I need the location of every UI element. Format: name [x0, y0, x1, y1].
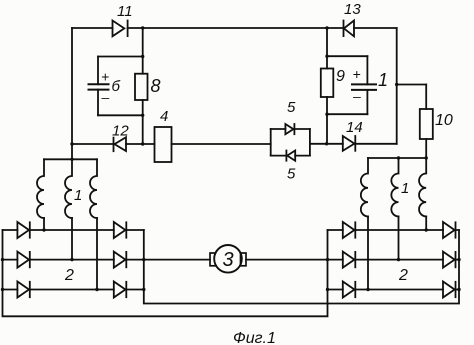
node junction diode12 / vertical x=142.7 — [141, 142, 144, 145]
wire motor right lead — [246, 259, 328, 261]
node left bus row2 — [1, 258, 4, 261]
wire capacitor C7 bottom lead — [366, 90, 368, 114]
node loop7 bottom rail junction — [325, 113, 328, 116]
wire right coil A lead to row3 — [367, 216, 369, 289]
svg-text:+: + — [101, 69, 109, 85]
node right bridge left bus row3 — [326, 288, 329, 291]
wire diode 14 to right vertical — [355, 143, 396, 145]
svg-text:1: 1 — [401, 180, 409, 197]
diode bridge left row1 left — [17, 222, 29, 238]
wire loop7 bottom rail — [327, 113, 367, 115]
resistor R10 — [420, 109, 433, 139]
node left bridge row1 / coil A — [42, 228, 45, 231]
wire right coil C lead to row1 — [425, 216, 427, 230]
wire capacitor C6 top lead — [97, 57, 99, 85]
diode bridge right row2 left — [343, 252, 356, 268]
inductor left A (x=44) — [37, 159, 44, 218]
diode bridge left row3 left — [17, 282, 29, 298]
inductor left C (x=97) — [90, 159, 97, 218]
wire R10 branch horizontal — [397, 84, 427, 86]
resistor R8 — [135, 74, 148, 100]
left bridge row 2 — [3, 259, 144, 261]
motor M3 body — [214, 245, 242, 273]
diode 12 — [114, 137, 127, 151]
diode 11 — [113, 21, 128, 37]
wire R10 bottom lead — [425, 139, 427, 158]
wire pair top rail — [271, 128, 310, 130]
wire left bridge right bus down and across to right bridge right bus — [144, 230, 459, 304]
svg-text:12: 12 — [112, 123, 129, 140]
motor M3 right brush — [241, 253, 247, 266]
node junction top bus / R8 branch — [141, 26, 144, 29]
diode pair 5 left side — [270, 129, 272, 156]
motor M3 left brush — [210, 253, 216, 266]
inductor right B (x=398.5) — [391, 158, 398, 216]
left bridge row 1 — [3, 229, 144, 231]
diode 13 — [344, 21, 355, 37]
resistor R9 — [321, 69, 334, 98]
wire top bus middle segment — [128, 27, 344, 29]
svg-text:Фиг.1: Фиг.1 — [233, 330, 276, 345]
wire capacitor C7 top lead — [366, 56, 368, 84]
node right bridge right bus row2 — [457, 258, 460, 261]
node loop7 top rail junction — [325, 55, 328, 58]
node loop6 bottom rail junction — [141, 114, 144, 117]
svg-text:–: – — [352, 88, 361, 104]
node left bridge right bus row3 — [142, 288, 145, 291]
wire capacitor C6 bottom lead — [97, 90, 99, 116]
svg-text:3: 3 — [223, 249, 234, 271]
wire right vertical x=396.7 from top bus to diode 14 row — [396, 28, 398, 144]
svg-text:5: 5 — [287, 99, 296, 116]
node right rail / coil B junction — [397, 156, 400, 159]
node junction control row / vertical x=327 — [325, 142, 328, 145]
diode bridge right row1 right — [443, 222, 456, 238]
svg-text:2: 2 — [398, 267, 408, 284]
node left bridge row2 / coil B — [70, 258, 73, 261]
wire vertical x=142.7 bottom segment — [142, 100, 144, 144]
wire left vertical from top bus down to coil rail — [71, 28, 73, 159]
svg-text:б: б — [112, 78, 121, 95]
diode bridge right row2 right — [443, 252, 456, 268]
wire right coil B lead to row2 — [398, 216, 400, 259]
wire vertical x=142.7 top segment — [142, 28, 144, 74]
wire control row from left vertical to diode 12 — [72, 143, 114, 145]
diode 5 lower (pointing left) — [286, 151, 295, 161]
diode bridge right row3 left — [343, 282, 356, 298]
wire loop6 bottom rail — [98, 114, 143, 116]
diode pair 5 right side — [309, 129, 311, 156]
right bridge row 2 — [328, 259, 460, 261]
inductor right A (x=368) — [361, 158, 368, 216]
svg-text:8: 8 — [151, 76, 161, 96]
wire diode pair to diode 14 — [310, 143, 343, 145]
svg-text:–: – — [101, 89, 110, 105]
node right bridge right bus row3 — [457, 288, 460, 291]
svg-text:9: 9 — [336, 68, 345, 85]
node junction R10 branch — [395, 83, 398, 86]
node left bridge right bus row2 — [142, 258, 145, 261]
diode bridge left row2 right — [114, 252, 127, 268]
wire loop7 top rail — [327, 55, 367, 57]
wire left coil A lead to row1 — [43, 218, 45, 230]
node left bus row3 — [1, 288, 4, 291]
node loop6 top rail junction — [141, 55, 144, 58]
svg-text:2: 2 — [64, 267, 74, 284]
wire left coil rail — [44, 158, 97, 160]
wire motor left lead — [144, 259, 210, 261]
node right rail / R10 lead junction — [425, 156, 428, 159]
wire vertical x=327 top segment — [326, 28, 328, 69]
right bridge row 1 — [328, 229, 460, 231]
wire left coil B lead to row2 — [71, 218, 73, 260]
node right bridge row1 / coil C — [425, 228, 428, 231]
diode bridge right row3 right — [443, 282, 456, 298]
wire loop6 top rail — [98, 56, 143, 58]
box 4 (regulator) — [155, 127, 172, 162]
capacitor C7 — [352, 84, 376, 90]
svg-text:11: 11 — [117, 3, 133, 20]
node junction top bus / R9 branch — [325, 26, 328, 29]
wire top bus left segment — [72, 27, 113, 29]
diode 14 — [343, 136, 356, 151]
svg-text:+: + — [353, 66, 361, 82]
diode bridge right row1 left — [343, 222, 356, 238]
node right bridge row3 / coil A — [366, 288, 369, 291]
wire top bus right segment — [354, 27, 397, 29]
wire pair bottom rail — [271, 155, 310, 157]
capacitor C6 — [89, 84, 109, 89]
wire diode 12 to box 4 — [126, 143, 155, 145]
wire vertical x=327 bottom segment — [326, 97, 328, 144]
node right bridge row2 / coil B — [397, 258, 400, 261]
svg-text:1: 1 — [378, 70, 388, 90]
right bridge row 3 — [328, 289, 460, 291]
svg-text:5: 5 — [287, 166, 296, 183]
diode bridge left row2 left — [17, 252, 29, 268]
svg-text:4: 4 — [160, 108, 168, 125]
wire left bridge left bus down to bottom rail and across to right bridge left bus — [3, 230, 328, 316]
node left bridge row3 / coil C — [95, 288, 98, 291]
wire R10 top lead — [425, 85, 427, 110]
node right bridge left bus row2 — [326, 258, 329, 261]
wire left coil C lead to row3 — [96, 218, 98, 290]
diode bridge left row3 right — [114, 282, 127, 298]
node left rail / coil B junction — [70, 158, 73, 161]
node control row left junction — [70, 142, 73, 145]
diode 5 upper (pointing right) — [285, 124, 294, 134]
svg-text:1: 1 — [74, 187, 82, 204]
svg-text:13: 13 — [344, 1, 361, 18]
left bridge row 3 — [3, 289, 144, 291]
svg-text:10: 10 — [435, 112, 453, 129]
inductor right C (x=426.2) — [419, 158, 426, 216]
inductor left B (x=72) — [65, 159, 72, 218]
wire box 4 to diode pair 5 — [172, 143, 271, 145]
svg-text:14: 14 — [346, 119, 363, 136]
wire right coil rail — [368, 157, 426, 159]
diode bridge left row1 right — [114, 222, 127, 238]
